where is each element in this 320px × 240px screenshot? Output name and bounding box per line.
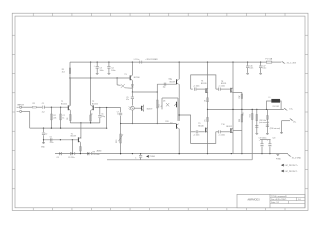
wire supply caps top [260, 139, 271, 141]
resistor R2 shunt [50, 107, 52, 128]
svg-text:T7: T7 [170, 122, 172, 124]
capacitor C8 on bus A [59, 152, 61, 155]
capacitor C6 series in base [49, 138, 51, 141]
svg-text:BC556: BC556 [92, 103, 98, 105]
svg-text:220u: 220u [50, 142, 54, 144]
transistor T2 mirrored [92, 105, 94, 110]
wire T5 emitter down [79, 142, 81, 153]
wire LED base link [134, 107, 141, 109]
svg-text:AGND: AGND [97, 150, 103, 153]
wire analog ground bus A [55, 153, 288, 155]
capacitor C21 decouple [247, 62, 249, 66]
wire bias mid bus [121, 123, 176, 125]
wire C1 to T1 base [45, 106, 68, 108]
resistor R10 feedback to gnd [120, 124, 122, 154]
capacitor C16 T8b base [216, 131, 218, 133]
frame side zone ticks [12, 34, 15, 36]
resistor R7 on T2 leg [90, 115, 92, 121]
transistor T3 current source [129, 75, 131, 80]
capacitor C5b lag [99, 108, 101, 115]
svg-text:(R10 not mnt): (R10 not mnt) [270, 127, 281, 130]
svg-text:100u: 100u [262, 68, 266, 70]
junction tail bus [69, 77, 70, 78]
capacitor C2 shunt [60, 107, 62, 128]
svg-text:2u2: 2u2 [42, 112, 45, 114]
svg-text:D3: D3 [163, 100, 165, 102]
wire power ground bus B [107, 159, 252, 161]
capacitor C17 zobel [255, 125, 258, 127]
pin X2-1 LS out [284, 108, 286, 110]
svg-text:+C 100n: +C 100n [193, 86, 199, 88]
svg-text:220p: 220p [101, 116, 105, 118]
diode D2 on T3 leg [131, 85, 133, 87]
wire T5 base resistor down [71, 140, 73, 154]
svg-text:100n: 100n [249, 68, 253, 70]
svg-text:Date: 1/1: Date: 1/1 [271, 201, 280, 204]
svg-text:R6: R6 [67, 118, 69, 120]
transistor T6b driver pnp [205, 128, 207, 133]
svg-text:2k2: 2k2 [62, 72, 65, 74]
ground below C2 [42, 142, 45, 144]
wire input to R1 [23, 106, 32, 108]
capacitor C11 bus bridge [140, 154, 142, 155]
wire T3 collector to rail [131, 62, 133, 75]
capacitor C7 feedback [120, 108, 122, 113]
junction feedback mid [120, 123, 121, 124]
title block outline [237, 194, 305, 208]
wire T6 column [207, 62, 209, 154]
emitter resistor R17 upper [233, 91, 242, 93]
wire +35V top rail [70, 61, 266, 63]
svg-text:BD139: BD139 [147, 108, 153, 110]
junction feedback takeoff [43, 139, 44, 140]
electrolytic C9 on bus A [69, 152, 71, 155]
wire VAS to T4 base [157, 83, 176, 85]
wire T7 collector to ground bus [178, 129, 180, 154]
ground main at bus A [276, 154, 279, 156]
svg-text:LSP_PROTECT+: LSP_PROTECT+ [285, 165, 298, 167]
bias box left leg [161, 98, 163, 109]
transistor T7 [176, 124, 178, 129]
svg-text:BD140: BD140 [198, 125, 204, 127]
resistor R8 emitter [80, 147, 82, 152]
resistor R5 tail [69, 68, 71, 74]
svg-text:Doc: A-35-4 SHT:: Doc: A-35-4 SHT: [271, 198, 287, 201]
wire T5 collector up [79, 138, 81, 139]
ground below C3 [96, 72, 99, 74]
svg-text:C8: C8 [56, 157, 58, 159]
svg-text:1n: 1n [117, 114, 119, 116]
svg-text:BD139: BD139 [201, 83, 207, 85]
ground zobel [255, 132, 258, 134]
transistor T1 [67, 105, 69, 110]
svg-text:+C 100n: +C 100n [193, 134, 199, 136]
svg-text:PGND: PGND [276, 158, 282, 160]
wire collector link bus [70, 122, 100, 124]
transistor T8b output pnp [230, 128, 232, 133]
svg-text:C18 100n: C18 100n [259, 120, 266, 122]
svg-text:+C 100n: +C 100n [218, 134, 224, 136]
svg-text:C6: C6 [50, 137, 52, 139]
wire output bus [208, 108, 284, 110]
transistor T5 [77, 137, 79, 142]
svg-text:+C 100n: +C 100n [218, 86, 224, 88]
svg-text:100n: 100n [111, 70, 115, 72]
svg-text:BC556: BC556 [61, 103, 67, 105]
svg-text:BD912: BD912 [226, 126, 232, 128]
wire VAS feed horizontal [132, 91, 157, 93]
pin X2-2 LS return [290, 119, 292, 121]
svg-text:R24 10R: R24 10R [273, 106, 280, 108]
wire cascode stub [143, 105, 145, 112]
wire input ground bus [30, 127, 107, 129]
net bridge +35V ticks [139, 61, 141, 64]
resistor R11 VAS [157, 100, 159, 108]
wire input ground drop [23, 110, 29, 112]
netarrow LSP plus [281, 164, 284, 167]
svg-text:R7: R7 [92, 113, 94, 115]
led arrows [129, 107, 131, 108]
capacitor C18 zobel2 [266, 124, 269, 126]
svg-text:BC556: BC556 [134, 77, 140, 79]
svg-text:R17: R17 [239, 95, 241, 98]
svg-text:LSP_PROTECT-: LSP_PROTECT- [285, 171, 298, 173]
svg-text:BD139: BD139 [170, 81, 176, 83]
transistor T8 output npn [230, 88, 232, 93]
capacitor C4 rail decouple [108, 62, 110, 66]
frame inner border [15, 16, 305, 208]
trimmer P1 in bias box [176, 102, 178, 107]
electrolytic C10 on bus A [86, 152, 88, 155]
svg-text:TITLE: ampmod3: TITLE: ampmod3 [271, 196, 287, 198]
junction VAS bottom [157, 123, 158, 124]
svg-text:T10: T10 [221, 124, 224, 126]
svg-text:47u: 47u [126, 99, 129, 101]
svg-text:1k: 1k [62, 117, 64, 119]
wire LED to bottom bus [131, 110, 133, 123]
pin X1-1 +35V [282, 61, 284, 63]
frame outer border [12, 13, 308, 210]
junction T6 emitter on output bus [207, 109, 208, 110]
electrolytic C20 supply [269, 140, 271, 144]
ground below C4 [108, 72, 111, 74]
wire T2 base to feedback node [95, 107, 121, 109]
svg-text:C20: C20 [272, 137, 275, 139]
capacitor C13 T6 base [191, 88, 193, 90]
netarrow PGND [146, 155, 149, 158]
ground LS return [280, 132, 283, 134]
svg-text:22k: 22k [53, 117, 56, 119]
wire upper bias box [191, 75, 216, 89]
wire T4 emitter down to T7 [178, 84, 180, 121]
wire VAS column [156, 84, 158, 123]
junction dots bus A [59, 153, 60, 154]
svg-text:F1 T4A: F1 T4A [266, 57, 273, 60]
svg-text:R18: R18 [239, 119, 241, 122]
diode D3 in bias box [166, 103, 169, 106]
wire T2 emitter up [90, 62, 92, 105]
resistor R16 driver emitter lower [207, 117, 209, 121]
svg-text:AMPMOD3: AMPMOD3 [247, 198, 260, 201]
title block rev cell divider [296, 197, 298, 200]
title block row lines [270, 196, 305, 198]
wire T1 emitter up [69, 78, 71, 105]
svg-text:R1: R1 [33, 103, 35, 105]
electrolytic C19 supply [261, 140, 263, 144]
svg-text:X1-1 +35V: X1-1 +35V [287, 62, 297, 64]
wire T4 collector from rail [178, 62, 180, 79]
resistor R6 on T1 leg [70, 115, 72, 121]
wire lower bias box [179, 115, 216, 143]
junction T3 out [132, 91, 133, 92]
netarrow LSP minus [281, 170, 284, 173]
pin X1-2 GND [288, 154, 290, 156]
capacitor C5 on T3 leg [131, 92, 133, 97]
transistor T4 [176, 79, 178, 84]
emitter resistor R18 lower [233, 129, 242, 131]
wire bus B corner up [251, 109, 253, 159]
svg-text:C9 220u: C9 220u [68, 157, 75, 159]
diode D1 bias diagonal [116, 78, 118, 85]
wire T3 emitter down [131, 80, 133, 92]
transistor T6 driver npn [205, 88, 207, 93]
svg-text:R10: R10 [116, 140, 118, 143]
connector pin IN signal [17, 106, 19, 108]
svg-text:BD911: BD911 [221, 83, 226, 85]
wire VAS base drop [80, 123, 82, 139]
svg-text:100u: 100u [100, 70, 104, 72]
svg-text:R22: R22 [249, 114, 251, 117]
svg-text:L1: L1 [269, 97, 271, 99]
svg-text:10p: 10p [163, 86, 166, 88]
bias network box top [162, 97, 178, 99]
svg-text:C1: C1 [42, 103, 44, 105]
resistor R20 zobel [256, 109, 258, 133]
svg-text:X1-2 GND: X1-2 GND [292, 157, 302, 159]
wire T2 collector down [90, 110, 92, 123]
wire T8 column [232, 62, 234, 154]
wire rail to fuse out [272, 61, 282, 63]
capacitor C1 [42, 106, 44, 109]
wire T5 base [44, 139, 78, 141]
svg-text:0R5: 0R5 [242, 112, 244, 115]
resistor R21 zobel2 [266, 109, 268, 133]
svg-text:C2: C2 [45, 133, 47, 135]
svg-text:LS-: LS- [293, 121, 296, 123]
ground zobel2 [266, 133, 269, 135]
svg-text:BD139: BD139 [71, 136, 77, 138]
wire feedback node down [106, 108, 108, 129]
resistor R22 on riser [251, 114, 253, 120]
bias box right leg to T7 [177, 98, 179, 121]
junction dots on rail [90, 61, 91, 62]
led LED1 indicator circle [131, 106, 135, 110]
svg-text:PGND: PGND [150, 156, 156, 158]
title block divider [269, 194, 271, 208]
capacitor C22 decouple [260, 62, 262, 66]
svg-text:R13: R13 [165, 121, 168, 123]
capacitor C2 to ground [43, 128, 45, 132]
resistor R15 driver emitter [207, 98, 209, 102]
wire rail corner down to tail [69, 62, 71, 106]
wire LS return [282, 120, 291, 122]
svg-text:+35V POWER: +35V POWER [145, 59, 158, 61]
resistor R1 [32, 106, 36, 108]
capacitor C8 miller [163, 83, 165, 86]
svg-text:C19 2200u: C19 2200u [259, 137, 267, 139]
connector pin IN ground [17, 110, 19, 112]
capacitor C14 T8 base [216, 88, 218, 90]
capacitor C3 rail decouple [96, 62, 98, 66]
wire R1 to C1 [36, 106, 42, 108]
svg-text:L2 10u: L2 10u [134, 59, 140, 61]
junction input bus right [106, 127, 107, 128]
fuse F1 [266, 61, 272, 63]
wire emitter bus [70, 77, 130, 79]
frame top/bottom zone ticks [32, 13, 34, 16]
capacitor C15 T6b base [191, 131, 196, 133]
transistor T10 cascode [141, 106, 143, 111]
wire T1 collector down [69, 110, 71, 123]
svg-text:T3: T3 [124, 74, 126, 76]
svg-text:C5 100n: C5 100n [93, 154, 100, 156]
inductor L1 parallel R loop [267, 101, 282, 109]
